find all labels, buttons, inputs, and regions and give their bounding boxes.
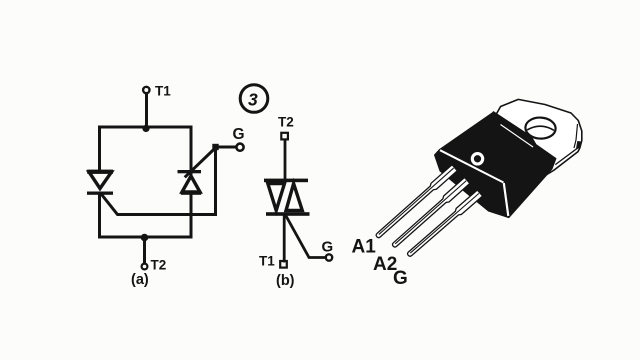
wire gate of (b) [286, 216, 325, 258]
wire T2 stem of (b) [284, 141, 287, 180]
tab right-end facet line [574, 124, 578, 148]
svg-text:T1: T1 [259, 254, 275, 269]
terminal T2 of (b) [281, 133, 288, 140]
junction dot top (T1 node) [142, 125, 149, 132]
triac bottom bar [266, 212, 310, 216]
wire right branch upper [190, 127, 193, 178]
svg-text:(a): (a) [131, 272, 149, 288]
tab hole [525, 117, 556, 140]
wire T2 stem [143, 237, 146, 263]
wire left branch lower [98, 194, 101, 237]
body bevel edge (front/bottom) [440, 150, 504, 182]
node square at gate tie point [212, 144, 218, 150]
wire node to G terminal [218, 146, 236, 149]
body bevel edge (front/right) [504, 183, 509, 216]
thyristor SCR2 (right, pointing up) [178, 170, 202, 195]
mounting tab outline [494, 99, 582, 175]
triac left triangle (down) [268, 184, 285, 211]
thyristor SCR1 (left, pointing down) [87, 170, 113, 195]
wire right branch lower [190, 194, 193, 237]
tab bottom thickness line [555, 147, 578, 164]
terminal G of (a) [236, 144, 243, 151]
lead A2 (pin 2) [391, 177, 470, 249]
lead G (pin 3) [406, 190, 483, 258]
triac right triangle (up) [286, 184, 302, 211]
lead A1 (pin 1) [374, 165, 457, 240]
triac symbol bars and triangles [264, 179, 310, 216]
tab corner dark wedge [576, 141, 581, 149]
svg-text:(b): (b) [276, 273, 295, 289]
svg-text:G: G [233, 126, 245, 143]
svg-text:T1: T1 [155, 84, 171, 99]
package body (black plastic) [435, 112, 557, 218]
tab hole inner depth arc [527, 126, 554, 130]
body/tab separation inset line [501, 125, 534, 148]
wire SCR1 gate to node [101, 149, 216, 215]
svg-text:3: 3 [248, 90, 258, 110]
terminal T1 of (b) [280, 261, 287, 268]
wire T1 stem [145, 94, 148, 128]
wire bottom rail [100, 236, 192, 239]
triac top bar [264, 179, 308, 183]
svg-text:G: G [393, 268, 408, 289]
junction dot bottom (T2 node) [141, 234, 149, 242]
svg-text:T2: T2 [278, 115, 294, 130]
terminal T2 [142, 264, 148, 270]
terminal T1 [143, 87, 149, 93]
svg-text:T2: T2 [151, 258, 167, 273]
wire left branch upper [98, 127, 101, 171]
wire SCR2 gate diagonal [186, 148, 216, 177]
terminal G of (b) [326, 254, 332, 260]
wire top rail [100, 126, 192, 129]
molding dot on body [472, 154, 482, 164]
wire T1 stem of (b) [283, 215, 286, 261]
svg-text:G: G [322, 239, 334, 256]
